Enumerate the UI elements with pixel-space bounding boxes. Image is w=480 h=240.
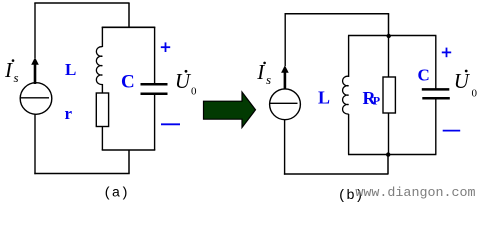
wire: (b) C bottom lead xyxy=(435,99,437,154)
current source I_s arrow (a) xyxy=(31,57,39,84)
svg-text:0: 0 xyxy=(472,87,478,99)
svg-text:www.diangon.com: www.diangon.com xyxy=(355,186,475,201)
wire: (b) Rp bottom lead xyxy=(388,113,390,155)
label U_0 (b) xyxy=(454,69,478,99)
current source I_s arrow (b) xyxy=(281,65,289,89)
inductor L coil (a) xyxy=(96,47,102,85)
wire: (b) inner top horizontal xyxy=(348,35,436,37)
inductor L coil (b) xyxy=(343,76,349,114)
label I_s (a) xyxy=(4,58,19,85)
capacitor C bottom plate (a) xyxy=(141,93,168,96)
wire: (a) top stub down to inner top wire xyxy=(128,3,130,28)
svg-text:s: s xyxy=(14,70,19,85)
wire: (a) top horizontal xyxy=(34,2,129,4)
svg-text:P: P xyxy=(373,94,380,108)
plus sign (a) xyxy=(161,42,170,52)
capacitor C bottom plate (b) xyxy=(422,97,450,100)
current source U2 circle (b) xyxy=(270,89,301,120)
capacitor C top plate (b) xyxy=(422,88,450,91)
svg-text:L: L xyxy=(65,60,76,79)
current source U1 circle (a) xyxy=(20,83,52,115)
wire: (a) bottom stub from inner bottom wire xyxy=(128,150,130,174)
label Rp (b) xyxy=(363,88,381,108)
wire: (b) outer bottom horizontal xyxy=(284,173,389,175)
wire: (b) left vertical below source xyxy=(284,120,286,175)
wire: (b) inner bottom horizontal xyxy=(348,154,436,156)
svg-text:0: 0 xyxy=(191,85,197,97)
wire: (b) bottom stub from junction xyxy=(387,155,389,175)
wire: (b) L branch top lead xyxy=(348,36,350,78)
svg-text:U: U xyxy=(454,69,471,93)
wire: (a) left vertical from top to arrow xyxy=(34,3,36,58)
svg-text:C: C xyxy=(418,66,430,85)
current source chord line (a) xyxy=(20,97,49,99)
minus sign (a) xyxy=(161,123,180,125)
wire: (b) L bottom lead xyxy=(348,114,350,155)
wire: (b) top horizontal xyxy=(285,13,390,15)
wire: (a) inner top horizontal (node between L branch and C branch) xyxy=(102,26,156,28)
svg-text:I: I xyxy=(4,58,13,82)
wire: (a) C branch top lead xyxy=(154,27,156,83)
svg-text:L: L xyxy=(318,87,330,107)
svg-text:r: r xyxy=(65,104,73,123)
svg-text:U: U xyxy=(175,69,192,93)
resistor r box (a) xyxy=(96,93,108,127)
svg-text:s: s xyxy=(266,72,271,87)
capacitor C top plate (a) xyxy=(141,83,168,86)
wire: (a) C bottom lead xyxy=(154,95,156,150)
wire: (b) left vertical from top to arrow xyxy=(284,14,286,66)
svg-text:(a): (a) xyxy=(103,186,129,202)
wire: (a) inner bottom horizontal xyxy=(102,149,156,151)
label U_0 (a) xyxy=(175,69,197,97)
wire: (a) L branch top lead xyxy=(101,27,103,47)
wire: (a) r bottom lead xyxy=(101,127,103,151)
svg-text:C: C xyxy=(121,71,135,92)
node: (b) top junction dot xyxy=(387,34,391,38)
wire: (b) C branch top lead xyxy=(435,36,437,89)
wire: (a) bottom horizontal xyxy=(34,173,129,175)
green equivalence arrow xyxy=(204,92,256,128)
resistor Rp box (b) xyxy=(383,77,395,113)
wire: (a) left vertical below source xyxy=(34,114,36,174)
current source chord line (b) xyxy=(270,102,298,104)
node: (b) bottom junction dot xyxy=(386,152,390,156)
minus sign (b) xyxy=(443,130,461,132)
label I_s (b) xyxy=(256,60,271,87)
wire: (b) top stub down to junction xyxy=(388,14,390,37)
wire: (b) Rp branch top lead xyxy=(388,36,390,77)
wire: (a) L to r lead xyxy=(101,84,103,93)
plus sign (b) xyxy=(442,48,451,58)
